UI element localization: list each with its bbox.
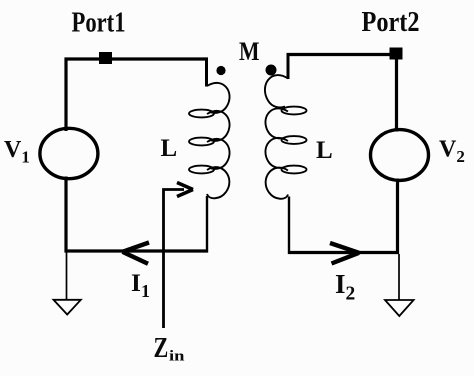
impedance arrow Zin head <box>177 183 193 190</box>
svg-text:Port1: Port1 <box>72 8 126 39</box>
wire top-right horizontal <box>287 53 398 56</box>
inductor L1 top lead <box>205 58 208 87</box>
wire left vertical lower <box>64 177 67 253</box>
svg-text:Z: Z <box>154 333 169 364</box>
source V1 <box>40 128 98 178</box>
svg-text:L: L <box>161 135 178 162</box>
wire right vertical lower <box>396 179 399 255</box>
wire bottom-right horizontal <box>289 251 400 254</box>
inductor L2 coil bumps <box>265 75 288 199</box>
node dot square on Port1 wire <box>99 52 112 64</box>
impedance arrow Zin shaft <box>164 190 185 329</box>
wire top-left horizontal <box>65 57 209 60</box>
inductor L1 coil bumps <box>207 83 230 198</box>
ground right stem <box>398 254 400 301</box>
inductor L2 bottom lead <box>288 197 290 255</box>
current arrow I2 <box>330 243 359 253</box>
ground right triangle <box>385 300 414 316</box>
source V2 <box>371 130 429 181</box>
wire left vertical upper <box>64 58 67 132</box>
polarity dot right coil <box>266 65 277 76</box>
svg-text:Port2: Port2 <box>362 7 420 38</box>
current arrow I1 <box>123 243 150 252</box>
wire bottom-left horizontal <box>65 249 209 252</box>
wire right vertical upper <box>395 53 398 132</box>
inductor L1 crossover loops <box>189 110 214 118</box>
svg-text:M: M <box>239 37 260 66</box>
svg-text:in: in <box>169 349 185 365</box>
inductor L2 crossover loops <box>282 107 307 115</box>
inductor L2 top lead <box>287 53 290 79</box>
inductor L1 bottom lead <box>206 196 208 253</box>
node dot square on Port2 wire <box>390 48 403 60</box>
ground left stem <box>66 252 68 300</box>
polarity dot left coil <box>216 66 225 75</box>
ground left triangle <box>54 300 81 315</box>
svg-text:L: L <box>316 137 333 164</box>
